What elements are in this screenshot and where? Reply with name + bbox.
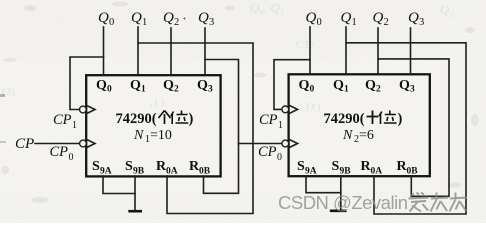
svg-text:1: 1 xyxy=(278,120,283,131)
wire Q3 pin U2 to label xyxy=(410,28,412,74)
svg-text:1: 1 xyxy=(352,17,357,28)
svg-text:1: 1 xyxy=(344,85,349,95)
wire Q1 U2 to R0A U2 xyxy=(346,43,466,214)
svg-text:0B: 0B xyxy=(407,167,419,177)
svg-text:0A: 0A xyxy=(166,167,178,177)
pin CP1 U2 clock wedge xyxy=(289,105,298,114)
wire Q0 U1 feedback to CP1 U1 xyxy=(70,57,104,110)
svg-text:=6: =6 xyxy=(359,128,374,143)
svg-text:3: 3 xyxy=(419,17,424,28)
svg-text:CP: CP xyxy=(258,144,277,160)
svg-text:Q: Q xyxy=(299,78,310,93)
svg-text:0: 0 xyxy=(310,85,315,95)
svg-text:0: 0 xyxy=(317,17,322,28)
ink smudge left margin xyxy=(0,94,5,97)
svg-text:CP: CP xyxy=(50,144,69,160)
svg-text:Q: Q xyxy=(96,78,107,93)
svg-text:Q: Q xyxy=(98,10,109,26)
svg-text:Q₀, Q₁: Q₀, Q₁ xyxy=(250,0,284,15)
wire Q0 U2 feedback to CP1 U2 xyxy=(274,60,310,110)
svg-text:): ) xyxy=(189,111,194,127)
ground GND1 xyxy=(128,210,142,213)
pin CP0 U1 inversion bubble xyxy=(80,140,87,147)
svg-text:3: 3 xyxy=(208,85,213,95)
pin CP0 U2 inversion bubble xyxy=(282,140,289,147)
svg-text:CP: CP xyxy=(53,112,72,128)
svg-text:N: N xyxy=(342,128,353,143)
svg-text:0: 0 xyxy=(277,152,282,163)
IC U2 74290 (tens digit) box xyxy=(289,74,430,176)
pin CP1 U1 inversion bubble xyxy=(80,106,87,113)
wire S9B U2 to ground xyxy=(340,176,342,210)
svg-text:Q: Q xyxy=(306,10,317,26)
svg-text:Q: Q xyxy=(341,10,352,26)
pin CP0 U2 clock wedge xyxy=(289,139,298,148)
svg-text:2: 2 xyxy=(174,17,179,28)
svg-text:Q: Q xyxy=(131,10,142,26)
svg-text:3: 3 xyxy=(209,17,214,28)
svg-text:): ) xyxy=(398,111,403,127)
svg-text:1: 1 xyxy=(141,85,146,95)
svg-text:Q₂: Q₂ xyxy=(440,2,454,17)
wire Q3 U1 to R0B U1 xyxy=(204,60,239,194)
wire CP input to CP0 U1 xyxy=(35,143,79,145)
svg-text:N: N xyxy=(133,128,144,143)
svg-text:Q: Q xyxy=(373,10,384,26)
svg-text:9A: 9A xyxy=(100,167,112,177)
svg-text:2: 2 xyxy=(174,85,179,95)
wire carry Q3 U1 to CP0 U2 xyxy=(239,143,282,145)
wire S9A U2 to ground xyxy=(306,176,341,193)
svg-text:S: S xyxy=(92,159,100,174)
pin CP1 U2 inversion bubble xyxy=(282,106,289,113)
svg-text:CP: CP xyxy=(259,112,278,128)
wire Q2 pin U2 to label xyxy=(377,28,379,74)
svg-text:Q: Q xyxy=(163,10,174,26)
svg-text:9B: 9B xyxy=(133,167,145,177)
svg-text:1: 1 xyxy=(72,120,77,131)
svg-text:0B: 0B xyxy=(199,167,211,177)
svg-text:, ( ): , ( ) xyxy=(150,97,164,108)
wire Q0 pin U1 to label xyxy=(103,27,105,75)
svg-text:Q: Q xyxy=(408,10,419,26)
svg-text:Q: Q xyxy=(163,78,174,93)
svg-text:Q: Q xyxy=(333,78,344,93)
svg-text:9A: 9A xyxy=(305,167,317,177)
svg-text:( O ): ( O ) xyxy=(300,101,321,113)
svg-text:0: 0 xyxy=(69,152,74,163)
svg-text:9B: 9B xyxy=(340,167,352,177)
svg-text:S: S xyxy=(297,159,305,174)
scan noise overlay xyxy=(0,0,1,1)
svg-text:S: S xyxy=(332,159,340,174)
speck between Q2 and Q3 xyxy=(184,18,186,20)
svg-text:Q: Q xyxy=(130,78,141,93)
svg-text:Q: Q xyxy=(365,78,376,93)
svg-text:Q: Q xyxy=(197,78,208,93)
svg-text:CT³: CT³ xyxy=(296,39,314,51)
svg-text:1: 1 xyxy=(142,17,147,28)
svg-text:0A: 0A xyxy=(371,167,383,177)
svg-text:CP: CP xyxy=(15,136,34,152)
svg-text:74290(: 74290( xyxy=(324,111,365,127)
svg-text:2: 2 xyxy=(384,17,389,28)
wire Q1 U1 to R0A U1 xyxy=(138,43,253,214)
svg-text:74290(: 74290( xyxy=(116,111,157,127)
ground GND2 xyxy=(330,210,347,213)
wire Q3 pin U1 to label xyxy=(204,28,206,75)
svg-text:S: S xyxy=(125,159,133,174)
wire S9B U1 to ground xyxy=(134,176,136,211)
svg-text:0: 0 xyxy=(109,17,114,28)
wire Q0 pin U2 to label xyxy=(309,27,311,74)
svg-text:Q: Q xyxy=(198,10,209,26)
svg-text:CSDN @Zevalin: CSDN @Zevalin xyxy=(278,192,408,213)
svg-text:3: 3 xyxy=(410,85,415,95)
svg-text:=10: =10 xyxy=(150,128,172,143)
IC U1 74290 (ones digit) box xyxy=(86,75,220,176)
wire Q1 pin U2 to label xyxy=(345,27,347,74)
svg-text:Q: Q xyxy=(399,78,410,93)
pin CP0 U1 clock wedge xyxy=(86,139,95,148)
watermark CJK ai hui hui xyxy=(409,193,468,212)
wire Q2 U2 to R0B U2 xyxy=(378,59,449,196)
wire Q1 pin U1 to label xyxy=(137,27,139,75)
svg-text:2: 2 xyxy=(376,85,381,95)
wire S9A U1 to ground xyxy=(103,176,135,194)
svg-text:0: 0 xyxy=(107,85,112,95)
pin CP1 U1 clock wedge xyxy=(86,105,95,114)
wire Q2 pin U1 to label xyxy=(170,28,172,75)
